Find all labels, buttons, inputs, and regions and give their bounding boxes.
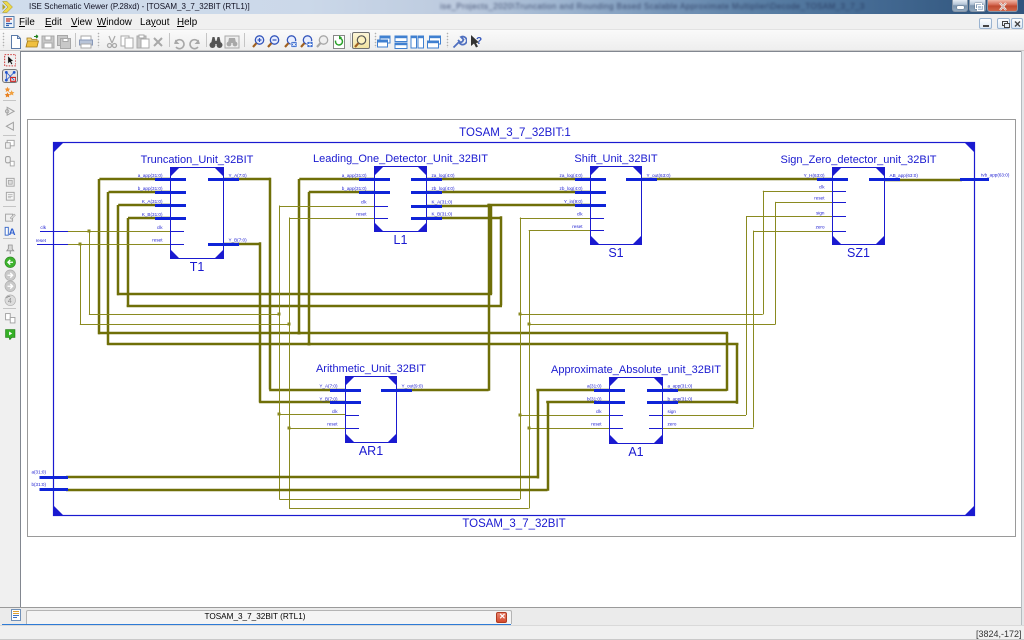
- svg-text:a(31:0): a(31:0): [587, 383, 602, 388]
- svg-text:zb_log(4:0): zb_log(4:0): [432, 186, 455, 191]
- svg-text:reset: reset: [36, 238, 47, 243]
- svg-text:Truncation_Unit_32BIT: Truncation_Unit_32BIT: [141, 154, 254, 166]
- svg-text:clk: clk: [157, 225, 163, 230]
- svg-text:Y_in(9:0): Y_in(9:0): [564, 199, 583, 204]
- svg-text:Leading_One_Detector_Unit_32BI: Leading_One_Detector_Unit_32BIT: [313, 153, 488, 165]
- svg-text:sign: sign: [816, 210, 825, 215]
- svg-text:za_log(4:0): za_log(4:0): [560, 173, 583, 178]
- svg-text:reset: reset: [572, 224, 583, 229]
- svg-text:reset: reset: [356, 211, 367, 216]
- svg-text:Sign_Zero_detector_unit_32BIT: Sign_Zero_detector_unit_32BIT: [781, 154, 937, 166]
- svg-text:clk: clk: [40, 225, 46, 230]
- svg-text:a_app(31:0): a_app(31:0): [668, 383, 693, 388]
- svg-text:a_app(31:0): a_app(31:0): [342, 173, 367, 178]
- svg-text:4: 4: [7, 297, 11, 304]
- svg-text:Y_out(63:0): Y_out(63:0): [647, 173, 671, 178]
- svg-text:TOSAM_3_7_32BIT: TOSAM_3_7_32BIT: [462, 518, 565, 530]
- svg-text:clk: clk: [332, 409, 338, 414]
- svg-text:K_A(31:0): K_A(31:0): [432, 199, 453, 204]
- svg-text:b(31:0): b(31:0): [31, 482, 46, 487]
- svg-text:S1: S1: [608, 246, 623, 260]
- svg-text:K_B(31:0): K_B(31:0): [432, 211, 453, 216]
- svg-text:zero: zero: [816, 224, 825, 229]
- svg-text:reset: reset: [327, 421, 338, 426]
- svg-text:reset: reset: [591, 421, 602, 426]
- svg-text:SZ1: SZ1: [847, 246, 870, 260]
- svg-text:zero: zero: [668, 421, 677, 426]
- svg-text:b_app(31:0): b_app(31:0): [342, 186, 367, 191]
- svg-text:Y_out(9:0): Y_out(9:0): [402, 383, 424, 388]
- svg-text:?: ?: [476, 36, 482, 47]
- svg-text:clk: clk: [361, 199, 367, 204]
- svg-text:tvb_app(63:0): tvb_app(63:0): [981, 173, 1010, 178]
- svg-text:clk: clk: [596, 409, 602, 414]
- svg-text:reset: reset: [814, 196, 825, 201]
- svg-text:b_app(31:0): b_app(31:0): [138, 186, 163, 191]
- svg-text:Y_B(7:0): Y_B(7:0): [229, 237, 248, 242]
- svg-text:T1: T1: [190, 260, 205, 274]
- svg-text:sign: sign: [668, 409, 677, 414]
- svg-text:a(31:0): a(31:0): [31, 470, 46, 475]
- svg-text:Y_B(7:0): Y_B(7:0): [319, 396, 338, 401]
- svg-text:za_log(4:0): za_log(4:0): [432, 173, 455, 178]
- svg-text:a_app(31:0): a_app(31:0): [138, 173, 163, 178]
- svg-text:Approximate_Absolute_unit_32BI: Approximate_Absolute_unit_32BIT: [551, 364, 721, 376]
- svg-text:L1: L1: [394, 233, 408, 247]
- svg-text:AB_app(63:0): AB_app(63:0): [890, 173, 919, 178]
- svg-text:A1: A1: [628, 445, 643, 459]
- svg-text:Y_A(7:0): Y_A(7:0): [229, 173, 248, 178]
- svg-text:Y_A(7:0): Y_A(7:0): [319, 383, 338, 388]
- svg-text:A: A: [8, 227, 15, 237]
- svg-text:AR1: AR1: [359, 444, 383, 458]
- svg-text:reset: reset: [152, 238, 163, 243]
- svg-text:K_B(31:0): K_B(31:0): [142, 212, 163, 217]
- svg-text:clk: clk: [819, 185, 825, 190]
- svg-text:TOSAM_3_7_32BIT:1: TOSAM_3_7_32BIT:1: [459, 127, 571, 139]
- svg-text:zb_log(4:0): zb_log(4:0): [560, 186, 583, 191]
- svg-text:b(31:0): b(31:0): [587, 396, 602, 401]
- svg-text:Shift_Unit_32BIT: Shift_Unit_32BIT: [574, 153, 657, 165]
- svg-text:K_A(31:0): K_A(31:0): [142, 199, 163, 204]
- svg-text:Arithmetic_Unit_32BIT: Arithmetic_Unit_32BIT: [316, 363, 426, 375]
- svg-text:clk: clk: [577, 211, 583, 216]
- svg-text:Y_H(63:0): Y_H(63:0): [804, 173, 825, 178]
- svg-text:b_app(31:0): b_app(31:0): [668, 396, 693, 401]
